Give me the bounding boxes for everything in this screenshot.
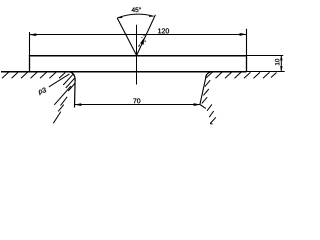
left support hatching under top [2,72,65,78]
right support hatching under top [206,72,277,78]
V-groove right leg [137,15,156,56]
small arrow mark on right leg [140,38,144,45]
plate top edge [29,55,247,57]
arrowhead left of 120 dim [29,33,36,36]
dimension line 10 (vertical, right) [280,55,282,71]
left support corner fan hatching [63,74,74,91]
label 10 rotated [275,59,279,65]
arrowhead top of 10 dim [280,55,283,60]
dimension line 70 [75,104,200,106]
plate bottom edge and support tops [1,71,247,73]
arrowhead right of 70 dim [194,103,201,106]
dimension line 120 [30,34,247,36]
extension line left (above plate) [29,32,31,55]
extension line for 10 dim top [247,55,284,57]
V-groove left leg [117,18,136,55]
arc arrowhead right [149,15,154,17]
arrowhead bottom of 10 dim [280,66,283,71]
plate right edge [246,55,248,71]
extension line for 10 dim bottom [247,71,285,73]
centerline of groove [136,25,138,85]
left support lower broken-edge strokes [53,86,71,123]
right support rounded corner [206,72,211,79]
right support edge hatching [202,80,210,103]
arrowhead left of 70 dim [74,103,81,106]
label 70 [133,98,140,103]
right support inner edge (slanted) [200,79,206,109]
right support lower broken-edge strokes [207,104,216,124]
angular dimension arc 45 [117,14,153,18]
arc arrowhead left [117,16,123,18]
leader line rho3 [49,74,70,87]
label 120 [158,28,169,33]
extension line right above plate [246,29,248,55]
plate left edge [29,55,31,72]
arrowhead right of 120 dim [240,33,247,36]
left support rounded corner [69,72,75,80]
label 45 deg [132,7,141,12]
left support inner edge [74,80,77,108]
label rho3 [38,87,46,95]
